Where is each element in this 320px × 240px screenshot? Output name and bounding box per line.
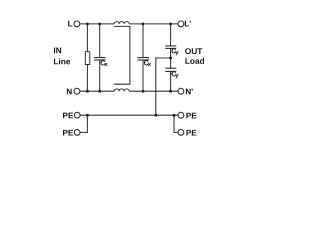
label N	[67, 89, 72, 95]
wire N row left	[80, 90, 114, 92]
junction L-Cx2	[141, 22, 144, 25]
junction L-Cx1	[98, 22, 101, 25]
label OUT	[185, 48, 202, 54]
choke winding bottom	[114, 89, 129, 91]
wire resistor top	[86, 24, 88, 52]
wire Cy chain top	[170, 24, 172, 46]
value label Cx2	[144, 60, 151, 66]
wire Cx1 top	[99, 24, 101, 57]
terminal L'	[178, 21, 184, 27]
capacitor Cx1 plates	[94, 58, 106, 60]
wire L row left	[80, 23, 114, 25]
wire Cx2 top	[142, 24, 144, 57]
value label Cy bottom	[172, 71, 179, 78]
wire Cy middle	[170, 49, 172, 68]
junction N-Cy	[169, 90, 172, 93]
junction PE mid	[154, 114, 157, 117]
resistor R discharge	[85, 52, 90, 65]
label PE left 1	[63, 113, 73, 119]
wire PE2 right link	[174, 115, 178, 132]
value label Cx1	[101, 60, 108, 66]
wire N row right	[129, 90, 178, 92]
wire Cy chain bottom	[170, 72, 172, 92]
terminal PE right 2	[178, 130, 184, 136]
wire Cy midpoint branch to PE	[156, 58, 171, 115]
capacitor Cy top plates	[165, 46, 176, 49]
label Line	[54, 58, 70, 64]
choke core	[114, 26, 130, 84]
label N'	[186, 89, 193, 95]
junction N-Cx1	[98, 90, 101, 93]
capacitor Cy bottom plates	[165, 68, 176, 71]
terminal N	[74, 88, 80, 94]
capacitor Cx2 plates	[137, 58, 149, 60]
junction L-R	[86, 22, 89, 25]
wire resistor bottom	[86, 65, 88, 92]
terminal PE left 1	[74, 112, 80, 118]
label L	[68, 21, 72, 27]
label IN	[54, 47, 61, 53]
label PE right 2	[186, 130, 196, 136]
terminal N'	[178, 88, 184, 94]
wire PE rail	[80, 114, 178, 116]
wire Cx2 bottom	[142, 60, 144, 91]
value label Cy top	[172, 48, 179, 55]
junction PE right branch	[173, 114, 176, 117]
label PE right 1	[186, 113, 196, 119]
wire PE2 left link	[80, 115, 87, 132]
label PE left 2	[63, 130, 73, 136]
junction N-R	[86, 90, 89, 93]
wire Cx1 bottom	[99, 60, 101, 91]
choke winding top	[114, 22, 129, 24]
junction L-Cy	[169, 22, 172, 25]
terminal L	[74, 21, 80, 27]
terminal PE left 2	[74, 130, 80, 136]
junction N-Cx2	[142, 90, 145, 93]
terminal PE right 1	[178, 112, 184, 118]
label L'	[185, 21, 191, 27]
label Load	[185, 58, 204, 64]
junction PE left	[86, 114, 89, 117]
wire L row right	[129, 23, 178, 25]
junction Cy midpoint	[169, 57, 172, 60]
